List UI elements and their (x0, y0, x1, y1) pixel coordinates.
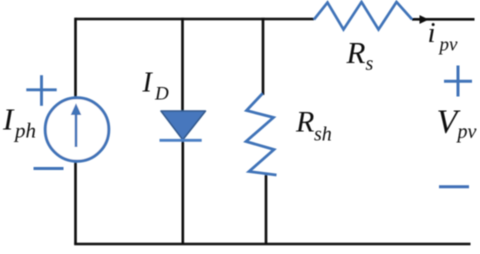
svg-text:R: R (346, 35, 366, 70)
minus sign right (439, 185, 469, 188)
wire shunt branch lower (265, 174, 268, 244)
svg-text:ph: ph (13, 119, 36, 143)
svg-text:s: s (366, 53, 374, 75)
label I_D (142, 68, 170, 105)
label I_ph (2, 102, 36, 143)
current source I_ph circle (45, 98, 109, 162)
svg-text:i: i (428, 17, 436, 49)
plus sign right (444, 66, 472, 97)
output current arrowhead (420, 15, 429, 24)
wire left vertical lower (74, 160, 77, 244)
current source arrow (71, 103, 82, 147)
svg-text:I: I (2, 102, 15, 137)
svg-text:R: R (295, 106, 314, 139)
label R_s (346, 35, 374, 75)
diode D triangle (161, 111, 206, 140)
wire bottom (74, 243, 470, 246)
plus sign left (26, 75, 56, 106)
svg-text:I: I (142, 68, 154, 99)
label V_pv (437, 104, 477, 144)
wire top right segment (412, 18, 475, 21)
svg-text:pv: pv (456, 121, 477, 143)
wire top left segment (75, 18, 314, 21)
label i_pv (428, 17, 459, 56)
wire diode branch lower (182, 140, 185, 244)
svg-text:D: D (154, 84, 169, 105)
wire left vertical upper (74, 18, 77, 97)
minus sign left (34, 167, 64, 170)
wire shunt branch upper (262, 18, 265, 95)
svg-text:sh: sh (314, 124, 332, 146)
wire diode branch upper (181, 18, 184, 113)
diode cathode bar (160, 139, 202, 142)
resistor R_sh zigzag (246, 94, 277, 176)
resistor R_s zigzag (314, 2, 412, 30)
svg-text:pv: pv (438, 35, 459, 56)
label R_sh (295, 106, 332, 146)
